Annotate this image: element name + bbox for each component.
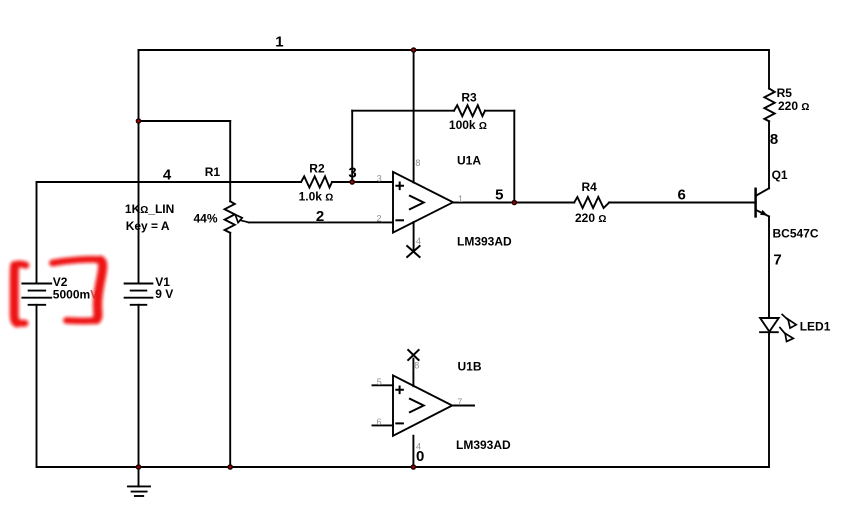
wire net 2 [249, 221, 393, 223]
svg-text:2: 2 [376, 214, 381, 224]
potentiometer R1 [225, 201, 235, 233]
svg-text:5: 5 [377, 377, 382, 387]
svg-text:3: 3 [348, 165, 356, 182]
wire net 5 [453, 202, 574, 204]
wire right vertical to R5 [768, 50, 770, 89]
resistor R2 [301, 176, 332, 187]
battery V2 [22, 182, 51, 467]
svg-text:8: 8 [770, 131, 778, 148]
svg-text:220 Ω: 220 Ω [575, 211, 606, 225]
svg-text:R2: R2 [309, 161, 325, 175]
red bracket right [53, 259, 101, 263]
svg-text:R4: R4 [582, 180, 598, 194]
svg-text:5000mV: 5000mV [53, 288, 98, 302]
svg-text:4: 4 [416, 441, 421, 451]
wire net 7 [768, 216, 770, 318]
svg-text:100k Ω: 100k Ω [449, 118, 487, 132]
wire net 0 bottom [37, 466, 770, 468]
node 5 junction [512, 200, 518, 206]
node wire1/U1A pin8 [411, 47, 417, 53]
svg-text:LM393AD: LM393AD [456, 438, 511, 452]
wire feedback top left [352, 110, 454, 112]
svg-text:4: 4 [163, 167, 172, 184]
wire net 3 [332, 181, 393, 183]
svg-text:220 Ω: 220 Ω [778, 99, 809, 113]
resistor R3 [454, 105, 485, 116]
node 3 junction [349, 179, 355, 185]
resistor R5 [764, 89, 774, 122]
R1 wiper arrow [235, 215, 249, 223]
svg-text:8: 8 [415, 158, 420, 168]
svg-text:6: 6 [678, 187, 686, 204]
svg-text:U1A: U1A [457, 153, 481, 167]
pin numbers [376, 158, 463, 452]
wire net 6 [609, 202, 755, 204]
op-amp U1A [393, 50, 453, 252]
svg-text:BC547C: BC547C [773, 227, 819, 241]
svg-text:44%: 44% [194, 211, 218, 225]
red bracket left [15, 264, 26, 267]
wire net 4 [37, 181, 302, 183]
op-amp U1B [373, 359, 475, 467]
svg-text:7: 7 [773, 251, 781, 268]
svg-text:Key = A: Key = A [126, 219, 170, 233]
node V1/R1 branch [136, 118, 142, 124]
svg-text:LED1: LED1 [800, 320, 831, 334]
wire feedback left vertical [351, 111, 353, 182]
svg-text:2: 2 [316, 208, 324, 225]
svg-text:1: 1 [275, 34, 283, 51]
wire branch to R1 top [139, 120, 231, 122]
node U1B pin4 junction [411, 464, 417, 470]
battery V1 [125, 50, 153, 467]
node ground junction [136, 464, 142, 470]
svg-text:8: 8 [414, 361, 419, 371]
X no-connect U1A pin4 [407, 246, 419, 257]
ground [128, 467, 150, 496]
resistor R4 [574, 197, 609, 208]
LED LED1 [760, 315, 796, 342]
svg-text:4: 4 [416, 236, 421, 246]
wire feedback right vertical [513, 111, 515, 203]
svg-text:Q1: Q1 [772, 168, 788, 182]
wire net 8 [768, 121, 770, 188]
svg-text:R1: R1 [205, 165, 221, 179]
svg-text:5: 5 [495, 187, 503, 204]
wire net 1 top [139, 49, 770, 51]
transistor Q1 [756, 188, 769, 216]
wire R1 bottom [229, 233, 231, 467]
node R1 bottom junction [227, 464, 233, 470]
svg-text:9 V: 9 V [155, 287, 173, 301]
svg-text:3: 3 [377, 173, 382, 183]
net number labels [163, 34, 782, 465]
svg-text:U1B: U1B [458, 359, 482, 373]
svg-text:LM393AD: LM393AD [457, 234, 512, 248]
wire LED to bottom [768, 332, 770, 467]
wire feedback top right [485, 110, 514, 112]
svg-text:1.0k Ω: 1.0k Ω [299, 189, 334, 203]
red marker annotation [14, 259, 102, 323]
svg-text:R3: R3 [461, 90, 477, 104]
svg-text:6: 6 [376, 417, 381, 427]
svg-text:7: 7 [457, 397, 462, 407]
X no-connect U1B pin8 [408, 350, 418, 360]
svg-text:1: 1 [458, 194, 463, 204]
svg-text:1KΩ_LIN: 1KΩ_LIN [125, 202, 174, 216]
